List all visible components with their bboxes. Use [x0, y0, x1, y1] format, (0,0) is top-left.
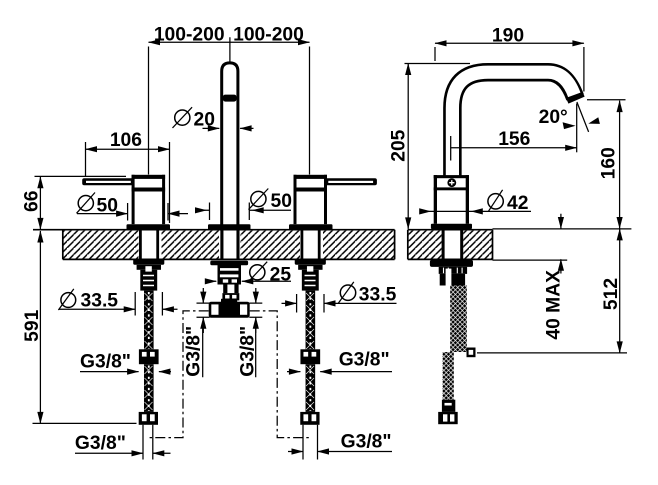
svg-text:G3/8": G3/8" — [341, 432, 392, 453]
dim 160 — [587, 100, 626, 229]
dim G3/8 tee left port rotated — [184, 288, 210, 377]
svg-text:40 MAX: 40 MAX — [543, 270, 564, 340]
dim dia50 spout flange — [195, 189, 292, 221]
center tee fitting stack — [209, 261, 250, 318]
left handle shank through counter — [140, 230, 157, 260]
dim G3/8 left bottom — [75, 425, 171, 460]
countertop left slab hatched — [33, 230, 395, 260]
spout outlet face — [567, 94, 583, 101]
dim dia33.5 left — [58, 289, 177, 316]
side view spout tube — [452, 72, 583, 178]
dim 156 — [451, 129, 578, 161]
dim dia20 spout column — [173, 107, 254, 131]
spout column front view — [222, 63, 238, 225]
svg-text:512: 512 — [601, 278, 622, 310]
spout column shank through counter — [222, 230, 238, 260]
dim G3/8 right mid — [287, 349, 392, 374]
svg-text:25: 25 — [270, 265, 292, 286]
left handle base flange — [127, 224, 171, 230]
dim G3/8 right bottom — [288, 425, 392, 460]
set screw — [447, 178, 456, 187]
dim 512 — [477, 228, 627, 353]
dim 106 — [85, 130, 170, 223]
right handle shank through counter — [302, 230, 319, 260]
right handle base flange — [289, 224, 333, 230]
right handle body — [294, 175, 328, 224]
svg-text:100-200: 100-200 — [233, 25, 304, 46]
svg-text:G3/8": G3/8" — [339, 349, 390, 370]
angle arrowheads — [563, 122, 576, 129]
dim 66 — [22, 176, 126, 230]
side view base flange — [431, 224, 472, 229]
spout column base flange — [208, 224, 251, 230]
outlet axis 20 deg line — [577, 102, 589, 132]
dim 40 MAX — [543, 214, 564, 340]
side view spout body — [434, 175, 469, 224]
left handle lever — [82, 178, 134, 185]
dim G3/8 left mid — [80, 352, 171, 375]
svg-text:160: 160 — [598, 147, 619, 179]
left handle hose assembly — [133, 259, 164, 425]
svg-text:G3/8": G3/8" — [184, 326, 205, 377]
svg-text:33.5: 33.5 — [359, 284, 397, 305]
right handle lever — [325, 178, 377, 185]
dash-dot hose routing left — [149, 311, 208, 438]
dim dia42 spout base — [419, 190, 531, 215]
svg-text:156: 156 — [498, 129, 530, 150]
dim dia50 left handle — [77, 193, 189, 221]
svg-text:G3/8": G3/8" — [75, 433, 126, 454]
dim dia33.5 right — [282, 282, 397, 313]
svg-text:G3/8": G3/8" — [80, 352, 131, 373]
dim 20 degree — [539, 102, 600, 152]
dash-dot hose routing right — [250, 311, 309, 438]
svg-text:33.5: 33.5 — [81, 291, 119, 312]
dim 591 — [22, 231, 137, 424]
outlet vertical reference line — [576, 104, 578, 153]
svg-text:66: 66 — [22, 190, 43, 212]
dim dia25 tee — [205, 262, 292, 286]
countertop right slab hatched — [408, 229, 632, 260]
side view hose assembly — [430, 260, 476, 424]
right handle hose assembly — [295, 259, 326, 425]
svg-text:106: 106 — [110, 130, 142, 151]
svg-text:50: 50 — [271, 191, 292, 212]
side view shank through counter — [443, 230, 462, 260]
dim 100-200 left — [148, 25, 310, 175]
svg-text:205: 205 — [389, 129, 410, 161]
dim G3/8 tee right port rotated — [238, 288, 263, 377]
left handle body — [132, 175, 166, 224]
dim 205 — [389, 63, 470, 229]
dim 190 — [435, 26, 585, 92]
